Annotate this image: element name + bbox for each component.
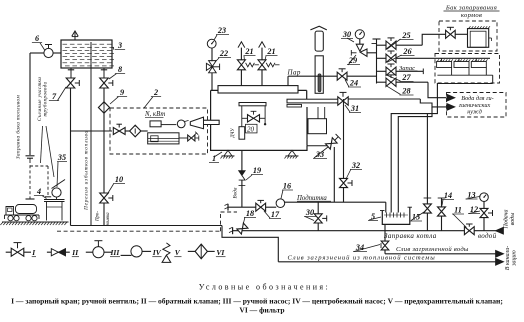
svg-text:III: III [110,248,121,257]
svg-text:зацию: зацию [512,249,518,266]
svg-text:IV: IV [152,248,162,257]
svg-text:28: 28 [401,87,410,96]
svg-text:воды: воды [509,213,516,226]
svg-text:3: 3 [117,41,122,50]
svg-text:4: 4 [36,187,41,196]
svg-text:Подача: Подача [503,209,510,229]
svg-text:17: 17 [271,210,280,219]
svg-text:32: 32 [351,161,360,170]
svg-text:I — запорный кран; ручной вент: I — запорный кран; ручной вентиль; II — … [11,297,503,306]
svg-text:26: 26 [402,47,412,56]
svg-text:14: 14 [444,191,452,200]
svg-text:35: 35 [57,153,66,162]
svg-text:Про-: Про- [96,211,101,222]
svg-text:25: 25 [401,31,410,40]
svg-text:водой: водой [478,232,497,240]
svg-text:нужд: нужд [467,109,482,116]
svg-text:10: 10 [115,175,123,184]
svg-text:трубопровода: трубопровода [43,81,48,116]
svg-text:9: 9 [120,88,124,97]
svg-text:2: 2 [153,88,158,97]
svg-text:Слив загрязнений из топливной: Слив загрязнений из топливной системы [288,255,436,262]
svg-text:23: 23 [217,26,226,35]
svg-text:30: 30 [305,208,314,217]
svg-text:Заправка бака топливом: Заправка бака топливом [15,95,22,159]
svg-text:Пар: Пар [287,69,301,77]
svg-text:В канали-: В канали- [505,246,511,270]
svg-text:19: 19 [253,166,261,175]
svg-text:30: 30 [342,30,351,39]
svg-text:VI — фильтр: VI — фильтр [239,306,284,315]
svg-text:Заправка котла: Заправка котла [384,232,437,240]
svg-text:II: II [71,248,79,257]
svg-text:21: 21 [244,47,253,56]
svg-text:мывка: мывка [106,212,111,227]
svg-text:11: 11 [454,206,462,215]
svg-text:27: 27 [401,73,411,82]
svg-text:21: 21 [266,47,275,56]
svg-text:Бак запаривания: Бак запаривания [445,5,497,12]
svg-text:16: 16 [283,182,292,191]
svg-text:N, кВт: N, кВт [144,111,165,118]
svg-text:Слив загрязненной воды: Слив загрязненной воды [396,246,469,253]
svg-text:Перелив избытков топлива: Перелив избытков топлива [83,130,90,211]
svg-text:Вода: Вода [232,187,239,198]
svg-text:ДЧУ: ДЧУ [231,127,236,138]
svg-text:18: 18 [246,209,254,218]
svg-text:Съемные участки: Съемные участки [38,77,43,121]
svg-text:VI: VI [216,248,225,257]
svg-text:31: 31 [350,104,359,113]
svg-text:24: 24 [349,79,358,88]
svg-text:Условные обозначения:: Условные обозначения: [199,283,330,292]
svg-text:1: 1 [212,154,216,163]
svg-text:8: 8 [118,65,122,74]
svg-text:кормов: кормов [461,12,482,19]
svg-text:22: 22 [219,49,228,58]
svg-text:20: 20 [247,125,255,133]
